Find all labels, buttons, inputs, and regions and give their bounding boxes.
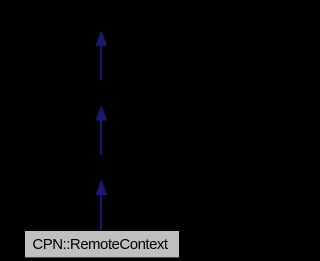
- node box 1 (top ancestor, invisible on black): [25, 5, 179, 31]
- svg-text:Ancestor1: Ancestor1: [70, 9, 133, 25]
- node box 2 (invisible on black): [25, 81, 179, 105]
- inheritance arrow 2 (node 3 -> node 2): [96, 106, 107, 155]
- wire: arrow 1 shaft: [100, 45, 102, 80]
- wire: arrow 2 shaft: [100, 120, 102, 155]
- arrowhead 1: [96, 32, 107, 46]
- wire: arrow 3 shaft: [100, 195, 102, 230]
- inheritance arrow 1 (node 2 -> node 1): [96, 32, 107, 80]
- svg-text:CPN::RemoteContext: CPN::RemoteContext: [32, 236, 169, 253]
- arrowhead 2: [96, 106, 107, 120]
- inheritance arrow 3 (CPN::RemoteContext -> node 3): [96, 181, 107, 230]
- svg-text:Ancestor2: Ancestor2: [70, 84, 133, 100]
- svg-text:Ancestor3: Ancestor3: [70, 159, 133, 175]
- inheritance graph for CPN::RemoteContext: [0, 0, 203, 261]
- node box 3 (invisible on black): [25, 156, 179, 180]
- node CPN::RemoteContext (current class, gray box): [25, 231, 180, 258]
- arrowhead 3: [96, 181, 107, 195]
